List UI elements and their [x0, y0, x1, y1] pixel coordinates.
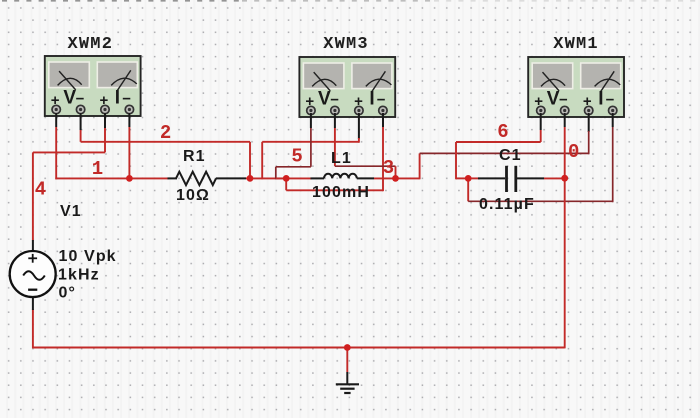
svg-text:10Ω: 10Ω	[176, 187, 210, 204]
svg-text:XWM1: XWM1	[553, 35, 599, 54]
wire net0 bottom rail	[32, 347, 565, 349]
svg-text:1kHz: 1kHz	[58, 267, 100, 284]
junction node 1	[126, 175, 133, 182]
wire net5 jog down	[275, 167, 277, 180]
wire net3 drop to L1 right	[395, 166, 397, 178]
junction ground node	[344, 344, 351, 351]
wire net1 XWM2 V+ drop	[55, 113, 57, 179]
svg-text:R1: R1	[183, 148, 206, 165]
wire net6 horizontal	[456, 141, 541, 143]
AC source V1	[10, 240, 56, 310]
wire net3 riser	[419, 153, 421, 179]
wire net1 XWM2 I- drop	[128, 113, 130, 178]
wire net5 jog left	[276, 166, 311, 168]
wire net3 jog right	[335, 165, 396, 167]
wire net3 long horizontal to XWM1 I+	[420, 152, 589, 154]
wire net1 horizontal	[55, 177, 129, 179]
wire V1 bottom to rail	[32, 309, 34, 348]
svg-text:C1: C1	[499, 147, 522, 164]
wire net2 drop to R1 right	[249, 142, 251, 179]
svg-text:V1: V1	[60, 203, 82, 220]
wire net4 left vertical to V1	[32, 152, 34, 240]
wire net4 horizontal	[33, 151, 105, 153]
capacitor C1	[468, 166, 565, 192]
wire net6 vertical	[455, 142, 457, 179]
inductor L1	[286, 174, 374, 179]
wire net2 bottom jog	[250, 177, 286, 179]
wattmeter U XWM1	[528, 57, 624, 117]
svg-text:1: 1	[92, 158, 103, 180]
wire net6 XWM1 I- drop	[612, 113, 614, 202]
svg-text:0: 0	[568, 141, 579, 163]
wire net2 long horizontal	[81, 141, 250, 143]
top edge dashes	[2, 0, 240, 2]
wire net4 XWM2 I+ drop	[104, 113, 106, 152]
wire net3 horizontal from L1	[374, 177, 420, 179]
wire net3 XWM3 V- drop	[334, 113, 336, 166]
wire net5 bypass horizontal	[286, 189, 383, 191]
wire net5 bypass down	[285, 178, 287, 190]
svg-text:0.11µF: 0.11µF	[479, 196, 535, 213]
svg-text:2: 2	[160, 122, 171, 144]
resistor R1	[129, 172, 250, 185]
wire net6 bypass down	[467, 178, 469, 201]
svg-text:5: 5	[291, 145, 302, 167]
wire net5 XWM3 I- drop	[382, 113, 384, 191]
wire net2 riser	[261, 142, 263, 180]
wire net6 XWM1 V+ drop	[540, 113, 542, 142]
svg-text:0°: 0°	[59, 285, 77, 302]
wire net2 XWM2 V- drop	[80, 113, 82, 142]
svg-text:6: 6	[497, 121, 508, 143]
svg-text:100mH: 100mH	[312, 184, 370, 201]
wattmeter U XWM3	[299, 57, 395, 117]
svg-text:XWM2: XWM2	[67, 35, 113, 54]
svg-text:3: 3	[383, 157, 394, 179]
svg-text:4: 4	[35, 179, 46, 201]
wire net6 bypass horizontal	[468, 200, 613, 202]
junction node 3	[392, 175, 399, 182]
junction node 6	[465, 175, 472, 182]
junction node 2	[247, 175, 254, 182]
ground	[336, 348, 359, 394]
wire net6 into C1 left	[456, 177, 468, 179]
wire net3 XWM1 I+ stub	[588, 113, 590, 154]
wire net0 XWM1 V- drop	[564, 113, 566, 348]
wire net2 horizontal to XWM3 I+	[262, 141, 359, 143]
wire net2 XWM3 I+ stub	[358, 113, 360, 143]
junction node 5	[283, 175, 290, 182]
wire net5 XWM3 V+ drop	[310, 113, 312, 167]
svg-text:10 Vpk: 10 Vpk	[59, 248, 117, 265]
wire net5 into L1 left	[276, 177, 286, 179]
wattmeter U XWM2	[45, 56, 141, 116]
junction node 0	[561, 175, 568, 182]
svg-text:L1: L1	[331, 150, 352, 167]
svg-text:XWM3: XWM3	[323, 35, 369, 54]
